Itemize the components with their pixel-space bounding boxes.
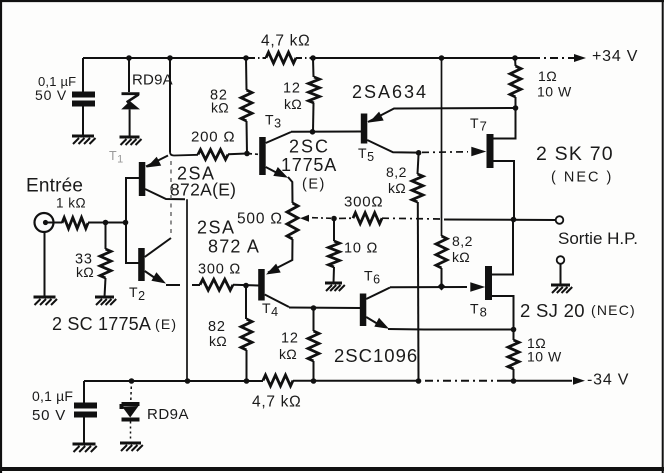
node 82k-T4base junction	[243, 283, 249, 289]
node rail-12k bottom junction	[311, 378, 317, 384]
svg-text:2 SJ 20: 2 SJ 20	[520, 300, 585, 321]
wire T1 collector to -34V	[186, 199, 188, 381]
label 10 Ohm	[344, 241, 378, 257]
node output junction	[511, 217, 517, 223]
svg-text:300 Ω: 300 Ω	[198, 262, 241, 278]
label T2	[129, 284, 146, 303]
label 82k top	[210, 88, 229, 116]
svg-text:872 A: 872 A	[208, 237, 260, 257]
wire T6 collector to T8 gate	[390, 286, 467, 288]
resistor 4.7k bottom	[263, 375, 293, 386]
svg-text:10 W: 10 W	[527, 349, 562, 365]
node rail-zener junction	[126, 55, 132, 61]
ground under bottom cap	[73, 444, 97, 452]
label 1ohm 10W bottom	[527, 335, 562, 365]
label +34 V	[592, 48, 638, 65]
wire +34V top rail	[83, 57, 572, 59]
label NEC top	[551, 170, 613, 186]
svg-text:(E): (E)	[155, 316, 177, 332]
svg-text:4,7 kΩ: 4,7 kΩ	[252, 394, 301, 411]
node T8source-T6emitter junction	[511, 327, 517, 333]
svg-text:2 SK 70: 2 SK 70	[536, 143, 614, 165]
transistor T3 2SC1775A	[259, 132, 292, 203]
svg-text:1775A: 1775A	[281, 155, 337, 175]
label 2SC 1775A (E)	[281, 137, 337, 193]
node rail-12k junction	[310, 55, 316, 61]
zener diode RD9A top	[121, 58, 140, 137]
label 300 Ohm base	[198, 262, 241, 278]
node rail-1ohm junction	[512, 55, 518, 61]
svg-text:2SC1096: 2SC1096	[334, 345, 418, 366]
label 12k top	[283, 81, 302, 113]
label 4,7 kOhm top	[261, 33, 310, 50]
label T6	[364, 268, 381, 287]
wire T7 gate dashdot	[422, 151, 468, 154]
svg-text:kΩ: kΩ	[76, 264, 94, 280]
label 1 kOhm	[56, 196, 86, 211]
svg-text:200 Ω: 200 Ω	[191, 129, 235, 146]
svg-text:10 Ω: 10 Ω	[344, 241, 378, 257]
terminal Sortie HP	[556, 216, 564, 224]
ground under 10ohm	[325, 283, 345, 291]
resistor 8.2k first	[412, 153, 423, 381]
transistor T1 2SA872A	[139, 156, 185, 200]
label 0,1 uF 50 V top-left	[35, 74, 76, 103]
label 8,2k second	[452, 233, 473, 265]
svg-text:kΩ: kΩ	[388, 180, 406, 196]
label Sortie H.P.	[558, 229, 638, 248]
zener diode RD9A bottom	[122, 381, 140, 443]
svg-text:T7: T7	[470, 115, 488, 134]
node rail-8.2k junction	[439, 55, 445, 61]
node T5coll-8.2k junction	[416, 150, 422, 156]
label T5	[358, 145, 375, 164]
label 2SA 872 A	[197, 218, 260, 257]
node T5emitter-1ohm junction	[513, 105, 519, 111]
input connector J1	[35, 213, 54, 297]
wire rail to node A vertical	[170, 58, 198, 156]
resistor 1ohm 10W bottom	[508, 330, 519, 382]
transistor T2 2SC1775A	[138, 238, 171, 284]
svg-text:( NEC ): ( NEC )	[551, 170, 613, 186]
node rail-82k junction	[243, 55, 249, 61]
wire rail to 8.2k second	[441, 58, 443, 236]
svg-text:1Ω: 1Ω	[538, 68, 557, 84]
wire output node to terminal	[444, 219, 556, 222]
label 500 Ohm	[237, 211, 283, 228]
label 2 SK 70	[536, 143, 614, 165]
resistor 12k top	[309, 58, 320, 132]
label T3	[265, 112, 282, 131]
resistor 8.2k second	[436, 236, 447, 287]
transistor T7 2SK70	[471, 108, 515, 220]
svg-text:12: 12	[283, 81, 301, 97]
node -34V arrow	[573, 377, 585, 385]
node 82k-200ohm junction	[244, 151, 250, 157]
node rail-T2collector junction	[167, 55, 173, 61]
node rail-zener bottom junction	[129, 378, 135, 384]
resistor 300ohm feedback	[334, 213, 440, 224]
svg-text:kΩ: kΩ	[452, 249, 470, 265]
node 12k-T5base junction	[310, 129, 316, 135]
label RD9A bottom	[147, 406, 189, 423]
label RD9A top	[132, 72, 173, 89]
ground under input	[34, 297, 58, 305]
ground under top cap	[72, 136, 96, 144]
svg-text:872A(E): 872A(E)	[170, 180, 236, 200]
svg-text:50 V: 50 V	[35, 87, 67, 103]
svg-text:RD9A: RD9A	[147, 406, 189, 423]
svg-text:kΩ: kΩ	[284, 96, 302, 112]
svg-text:10 W: 10 W	[537, 84, 572, 100]
resistor 4.7k top	[266, 52, 296, 63]
label 2SA 872A(E)	[170, 164, 236, 200]
wire T1-T2 base vertical	[126, 178, 139, 263]
node rail-8.2k bottom junction	[416, 378, 422, 384]
label Entree	[26, 176, 83, 197]
resistor 1ohm 10W top	[510, 58, 521, 108]
resistor 500ohm trimmer	[287, 203, 331, 239]
svg-text:0,1 µF: 0,1 µF	[32, 388, 73, 404]
label T7	[470, 115, 488, 134]
node input-base junction	[123, 220, 129, 226]
node 8.2k-T8gate diamond junction	[438, 283, 446, 291]
node input-33k junction	[103, 220, 109, 226]
resistor 82k top	[241, 58, 252, 154]
svg-text:kΩ: kΩ	[211, 100, 229, 116]
svg-text:(E): (E)	[302, 177, 326, 193]
resistor 82k bottom	[241, 286, 252, 382]
transistor T4 2SA872A	[258, 264, 289, 307]
ground under Sortie	[551, 285, 572, 293]
ground under top zener	[120, 137, 142, 145]
label 8,2k first	[386, 164, 407, 196]
label T8	[470, 301, 488, 320]
svg-text:300Ω: 300Ω	[344, 194, 383, 211]
svg-text:1 kΩ: 1 kΩ	[56, 196, 86, 211]
wire T3 base dash	[247, 153, 258, 156]
resistor 200ohm	[198, 150, 247, 160]
label T4	[262, 300, 279, 319]
svg-text:2SA: 2SA	[197, 218, 236, 238]
svg-text:50 V: 50 V	[32, 407, 66, 424]
capacitor 0.1uF bottom	[74, 381, 97, 444]
resistor 10ohm	[329, 219, 340, 284]
svg-text:-34 V: -34 V	[587, 372, 629, 389]
capacitor 0.1uF top	[72, 58, 95, 136]
label 2SA634	[352, 82, 428, 102]
label -34 V	[587, 372, 629, 389]
node rail-T1collector junction	[185, 378, 191, 384]
transistor T6 2SC1096	[360, 288, 514, 330]
wire T3 collector to T5 base	[291, 131, 361, 133]
label 200 Ohm	[191, 129, 235, 146]
resistor 33k	[100, 223, 111, 298]
resistor 1k input	[48, 218, 126, 229]
svg-text:+34 V: +34 V	[592, 48, 638, 65]
svg-text:12: 12	[281, 331, 299, 347]
node 12k-T6base junction	[311, 305, 317, 311]
node +34V arrow	[572, 54, 586, 62]
label 4,7 kOhm bottom	[252, 394, 301, 411]
svg-text:2SA634: 2SA634	[352, 82, 428, 102]
svg-text:kΩ: kΩ	[209, 333, 227, 349]
svg-text:8,2: 8,2	[386, 164, 407, 180]
resistor 12k bottom	[308, 308, 319, 381]
node feedback junction	[331, 216, 337, 222]
transistor T5 2SA634	[361, 108, 515, 153]
label 1ohm 10W top	[537, 68, 572, 100]
svg-text:500 Ω: 500 Ω	[237, 211, 283, 228]
svg-text:kΩ: kΩ	[279, 346, 297, 362]
svg-text:Entrée: Entrée	[26, 176, 83, 197]
node rail-82k bottom junction	[244, 378, 250, 384]
svg-text:4,7 kΩ: 4,7 kΩ	[261, 33, 310, 50]
wire -34V bottom rail	[84, 380, 572, 382]
wire 500ohm to T4 emitter	[268, 239, 293, 273]
label 2 SC 1775A (E) bottom	[52, 314, 177, 334]
label T1	[109, 149, 124, 166]
svg-text:2SC: 2SC	[289, 137, 330, 157]
wire T2 collector dashed vertical	[170, 161, 172, 237]
svg-text:Sortie H.P.: Sortie H.P.	[558, 229, 638, 248]
label 2SC1096	[334, 345, 418, 366]
label 33k	[75, 252, 94, 281]
wire T4 collector to T6 base	[289, 307, 360, 310]
svg-text:8,2: 8,2	[452, 233, 473, 249]
resistor 300ohm base	[166, 279, 259, 290]
label NEC bottom	[591, 302, 636, 318]
label 82k bottom	[208, 319, 227, 349]
svg-text:2 SC 1775A: 2 SC 1775A	[52, 314, 151, 334]
label 300 Ohm feedback	[344, 194, 383, 211]
label 0,1 uF 50 V bottom-left	[32, 388, 73, 424]
node rail-1ohm bottom junction	[511, 378, 517, 384]
ground under 33k	[95, 297, 116, 305]
label 2 SJ 20	[520, 300, 585, 321]
ground under bottom zener	[120, 443, 143, 451]
svg-text:RD9A: RD9A	[132, 72, 173, 89]
terminal Sortie ground	[557, 256, 565, 285]
label 12k bottom	[279, 331, 299, 363]
transistor T8 2SJ20	[470, 220, 513, 330]
svg-text:(NEC): (NEC)	[591, 302, 636, 318]
